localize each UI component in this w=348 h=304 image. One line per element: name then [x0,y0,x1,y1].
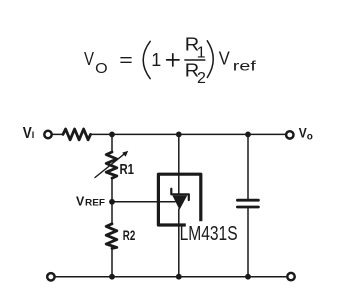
svg-text:V: V [23,125,32,142]
svg-text:R2: R2 [123,227,136,243]
wire: Vi terminal to series resistor [52,133,63,135]
wire: R1 bottom to VREF node [111,178,113,224]
IC U1 LM431S package outline [158,174,200,225]
shunt regulator cathode bar with ticks [171,189,189,200]
equation plus sign [167,59,179,61]
terminal bottom-left (ground return) [47,273,54,280]
svg-text:=: = [119,50,133,70]
node: bottom of capacitor branch [245,274,251,280]
wire: R2 bottom to bottom rail [111,248,113,276]
wire: regulator cathode [178,134,180,193]
capacitor bottom plate [237,206,258,209]
equation Vo = (1 + R1/R2)Vref [84,35,256,87]
capacitor top plate [237,199,258,202]
svg-text:V: V [219,47,231,68]
svg-text:O: O [95,61,108,77]
terminal bottom-right (ground return) [287,273,294,280]
wire: bottom rail [56,276,287,278]
svg-text:R1: R1 [120,162,135,178]
svg-text:I: I [32,130,35,140]
svg-text:ref: ref [233,58,256,74]
svg-text:o: o [307,132,313,143]
node: regulator cathode branch [176,132,182,138]
terminal Vi (input) [44,131,51,138]
svg-text:LM431S: LM431S [180,222,238,245]
white-out for LM431S label over box corner [186,221,242,243]
svg-text:V: V [76,194,85,208]
node: capacitor branch [245,132,251,138]
wire: capacitor branch top [247,134,249,199]
equation fraction bar [185,59,205,61]
svg-text:2: 2 [197,70,206,87]
node: top of R1 [109,132,115,138]
node: bottom of regulator branch [176,274,182,280]
wire: VREF to regulator reference pin [112,201,175,203]
label Vi [23,125,34,142]
node VREF [109,199,115,205]
resistor R1 (variable) zigzag [106,152,117,178]
label Vo [299,124,313,142]
equation left parenthesis [143,41,150,78]
resistor (series input, unlabeled) [63,129,91,140]
label VREF [76,194,105,208]
node: bottom of R1 branch [109,274,115,280]
svg-text:REF: REF [85,198,105,209]
wire: node to R1 top [111,134,113,152]
svg-text:V: V [84,48,95,69]
shunt regulator triangle (anode) [172,196,187,210]
wire: capacitor branch bottom [247,208,249,277]
wire: top rail [91,133,286,135]
svg-text:1: 1 [197,45,206,62]
resistor R2 zigzag [106,224,117,249]
wire: regulator anode to bottom rail [178,209,180,277]
resistor R1 arrow [95,153,125,177]
terminal Vo (output) [286,131,293,138]
equation right parenthesis [207,41,213,78]
svg-text:1: 1 [151,50,161,70]
